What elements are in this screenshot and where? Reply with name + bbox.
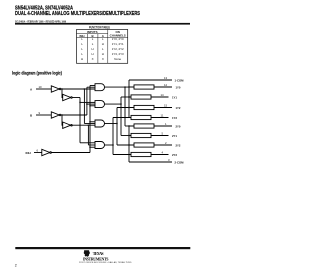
wire B to AND4	[88, 144, 95, 146]
svg-text:FUNCTION TABLE: FUNCTION TABLE	[89, 26, 110, 30]
wire bus to switch 2	[129, 96, 131, 98]
wire bus to switch 3	[129, 107, 134, 109]
svg-text:13: 13	[164, 76, 168, 80]
svg-text:DUAL 4-CHANNEL ANALOG MULTIPLE: DUAL 4-CHANNEL ANALOG MULTIPLEXERS/DEMUL…	[15, 11, 140, 17]
wire V3 to switch 3	[117, 107, 134, 109]
svg-text:4: 4	[162, 151, 164, 155]
svg-text:logic diagram (positive logic): logic diagram (positive logic)	[12, 71, 63, 76]
wire inverter B1 output to Bbar riser	[61, 114, 87, 116]
table rule under INPUTS	[77, 33, 108, 35]
table divider inputs/on-channels	[107, 30, 109, 64]
wire input INH	[34, 152, 42, 154]
wire INHbar to AND3	[90, 121, 95, 123]
inverter B1	[51, 112, 61, 118]
analog switch SW6	[131, 133, 151, 137]
svg-text:L: L	[81, 52, 83, 56]
svg-text:TEXAS: TEXAS	[93, 251, 104, 256]
wire inverter INH output	[51, 152, 90, 154]
analog switch SW2	[131, 95, 151, 99]
svg-text:A: A	[30, 87, 33, 91]
wire bus to switch 5	[129, 125, 134, 127]
analog switch SW5	[134, 124, 154, 128]
svg-text:H: H	[92, 52, 94, 56]
inverter B2	[63, 122, 73, 128]
svg-text:2: 2	[15, 264, 17, 268]
svg-text:X: X	[92, 57, 94, 61]
wire AND3 output to control bus V3	[105, 123, 118, 125]
node V4	[112, 118, 114, 155]
wire INHbar to AND1	[90, 85, 95, 87]
svg-text:L: L	[81, 42, 83, 46]
wire A to AND4	[80, 142, 95, 144]
wire Abar to AND3	[84, 123, 95, 125]
svg-text:3: 3	[168, 158, 170, 162]
wire switch 7 output	[154, 144, 172, 146]
node A riser	[79, 98, 81, 143]
svg-text:2Y3: 2Y3	[172, 153, 177, 157]
svg-text:1Y2: 1Y2	[176, 106, 181, 110]
svg-text:POST OFFICE BOX 655303 • DALLA: POST OFFICE BOX 655303 • DALLAS, TEXAS 7…	[79, 261, 132, 264]
svg-text:1Y2, 2Y2: 1Y2, 2Y2	[112, 47, 124, 51]
svg-text:2Y0: 2Y0	[176, 124, 181, 128]
inverter A1	[51, 86, 61, 92]
wire AND4 output to control bus V4	[105, 144, 114, 146]
wire switch 4 output	[151, 117, 169, 119]
wire V1 to switch 5	[125, 125, 134, 127]
wire switch 8 output	[151, 154, 169, 156]
wire branch A to inverter A2	[61, 89, 64, 98]
analog switch SW4	[131, 115, 151, 119]
svg-text:1Y3: 1Y3	[172, 116, 177, 120]
wire switch 5 output	[154, 125, 172, 127]
wire bus to switch 6	[129, 135, 131, 137]
wire bus to switch 4	[129, 117, 131, 119]
footer rule	[15, 247, 190, 249]
svg-text:H: H	[102, 52, 104, 56]
analog switch SW3	[134, 105, 154, 109]
inverter A2	[63, 94, 73, 100]
wire 1-COM line	[129, 79, 172, 81]
svg-text:1Y1: 1Y1	[172, 95, 177, 99]
node 2-COM bus	[128, 126, 130, 162]
svg-text:1Y0, 2Y0: 1Y0, 2Y0	[112, 37, 124, 41]
svg-text:10: 10	[39, 85, 43, 89]
wire V2 to switch 6	[121, 135, 131, 137]
wire A to AND2	[80, 101, 95, 103]
svg-text:14: 14	[161, 93, 165, 97]
svg-text:H: H	[102, 42, 104, 46]
inverter INH	[42, 149, 52, 155]
table rule under column heads	[77, 36, 128, 38]
wire switch 3 output	[154, 107, 172, 109]
node V1	[124, 87, 126, 126]
node INHbar riser	[89, 86, 91, 153]
wire inverter B2 output to AND3	[72, 124, 95, 126]
header rule	[15, 23, 190, 25]
wire bus to switch 1	[129, 86, 134, 88]
svg-text:X: X	[102, 57, 104, 61]
wire INHbar to AND2	[90, 105, 95, 107]
analog switch SW7	[134, 143, 154, 147]
wire V4 to switch 8	[113, 154, 131, 156]
wire branch B to inverter B2	[61, 115, 64, 125]
table rows	[81, 37, 124, 61]
wire inverter A2 output to A riser	[72, 97, 80, 99]
wire Bbar to AND2	[87, 103, 95, 105]
node V2	[120, 97, 122, 136]
wire V3 to switch 7	[117, 144, 134, 146]
TI logo bug	[84, 250, 90, 257]
svg-text:L: L	[102, 47, 104, 51]
svg-text:1: 1	[165, 122, 167, 126]
svg-text:6: 6	[37, 148, 39, 152]
wire 2-COM line	[129, 161, 172, 163]
wire AND2 output to control bus V2	[105, 103, 122, 105]
analog switch SW8	[131, 152, 151, 156]
svg-text:L: L	[81, 47, 83, 51]
wire switch 1 output	[154, 86, 172, 88]
table divider B/A	[97, 34, 99, 64]
svg-text:12: 12	[164, 83, 168, 87]
wire input A	[36, 88, 51, 90]
svg-text:H: H	[92, 47, 94, 51]
svg-text:2: 2	[165, 141, 167, 145]
svg-text:2-COM: 2-COM	[175, 160, 185, 164]
and gate U3	[95, 120, 105, 127]
svg-text:9: 9	[39, 111, 41, 115]
wire bus to switch 8	[129, 154, 131, 156]
table divider INH/B	[86, 34, 88, 64]
wire switch 2 output	[151, 96, 169, 98]
svg-text:INSTRUMENTS: INSTRUMENTS	[83, 257, 109, 262]
node Bbar riser	[86, 87, 88, 115]
wire switch 6 output	[151, 135, 169, 137]
svg-text:SCLS405A – FEBRUARY 1998 – REV: SCLS405A – FEBRUARY 1998 – REVISED APRIL…	[15, 19, 66, 23]
wire input B	[36, 114, 51, 116]
wire V4 to switch 4	[113, 117, 131, 119]
wire INHbar to AND4	[90, 146, 95, 148]
wire inverter A1 output to AND1	[61, 88, 95, 90]
svg-text:1Y1, 2Y1: 1Y1, 2Y1	[112, 42, 124, 46]
wire Bbar to AND1	[87, 86, 95, 88]
and gate U2	[95, 101, 105, 108]
svg-text:1Y3, 2Y3: 1Y3, 2Y3	[112, 52, 124, 56]
svg-text:1Y0: 1Y0	[176, 85, 181, 89]
junction dots	[61, 86, 129, 148]
svg-text:15: 15	[164, 104, 168, 108]
svg-text:5: 5	[162, 132, 164, 136]
wire V2 to switch 2	[121, 96, 131, 98]
svg-text:None: None	[114, 57, 121, 61]
svg-text:H: H	[81, 57, 83, 61]
node V3	[116, 108, 118, 146]
function table outer border	[77, 30, 128, 64]
svg-text:B: B	[30, 113, 33, 117]
node B riser	[87, 125, 89, 145]
svg-text:INH: INH	[26, 151, 31, 155]
and gate U1	[95, 84, 105, 91]
svg-text:2Y1: 2Y1	[172, 134, 177, 138]
node Abar riser	[83, 89, 85, 124]
wire AND1 output to switch 1	[105, 86, 135, 88]
svg-text:L: L	[92, 42, 94, 46]
svg-text:2Y2: 2Y2	[176, 143, 181, 147]
node 1-COM bus	[128, 80, 130, 118]
and gate U4	[95, 142, 105, 149]
svg-text:1-COM: 1-COM	[175, 78, 185, 82]
analog switch SW1	[134, 85, 154, 89]
svg-text:11: 11	[161, 114, 164, 118]
wire bus to switch 7	[129, 144, 134, 146]
